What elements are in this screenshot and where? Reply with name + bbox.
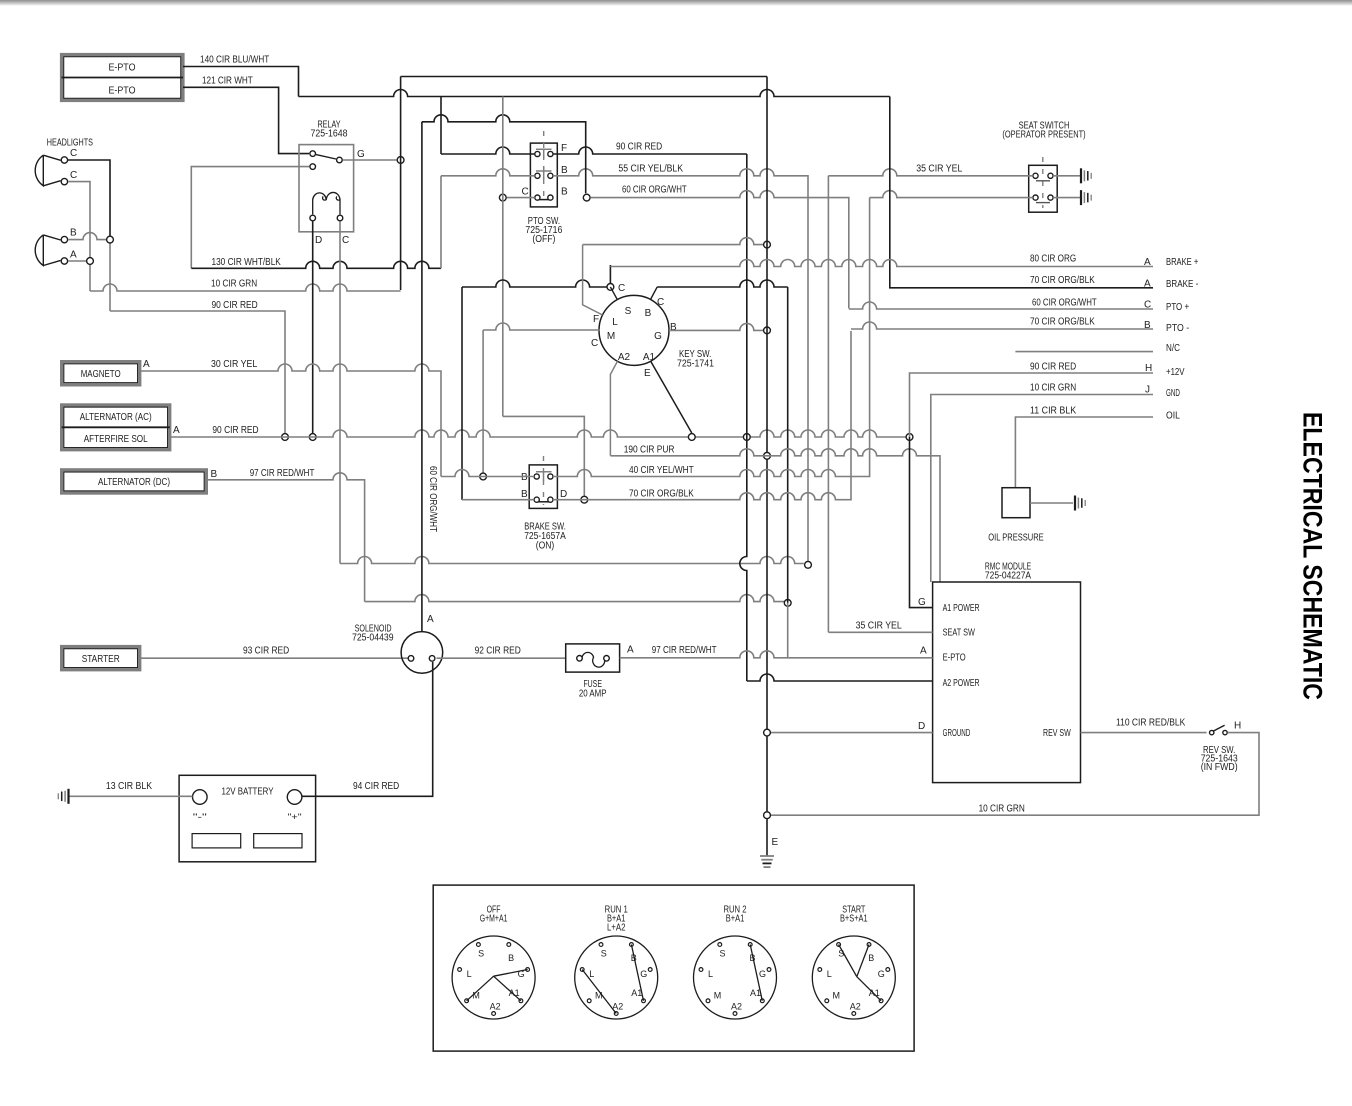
wire E-PTO entry from node xyxy=(788,603,933,658)
terminal C headlight upper-2 xyxy=(61,178,67,184)
wire headlight C2 to vertical xyxy=(68,182,90,291)
wire pto-C junction vertical xyxy=(502,97,504,417)
svg-text:D: D xyxy=(918,721,925,732)
svg-text:L: L xyxy=(612,317,618,328)
wire 90 RED row-F vertical xyxy=(740,154,747,681)
svg-text:BRAKE +: BRAKE + xyxy=(1166,257,1198,268)
brake contact B-right xyxy=(548,474,553,479)
wire SEAT SW entry xyxy=(828,631,932,633)
svg-text:A1: A1 xyxy=(643,352,656,363)
seat contact bar upper xyxy=(1036,180,1050,182)
svg-text:GND: GND xyxy=(1166,388,1180,399)
fuse F1 body xyxy=(566,644,620,672)
wire key C top-right stub xyxy=(651,287,658,300)
svg-text:10 CIR GRN: 10 CIR GRN xyxy=(979,804,1025,815)
wire 70 CIR ORG/BLK brake- row xyxy=(890,286,1153,289)
brake contact D-right xyxy=(548,497,553,502)
node main bus ground pin D xyxy=(764,729,771,736)
node RMC G vertical junction on 90 RED bus xyxy=(906,434,913,441)
PTO switch body xyxy=(530,143,557,207)
key position RUN 2 diagram xyxy=(694,905,777,1020)
svg-text:35 CIR YEL: 35 CIR YEL xyxy=(856,621,903,632)
wire relay G to node xyxy=(343,159,397,161)
ground seat switch upper xyxy=(1081,168,1091,183)
node junction B on C1 vertical xyxy=(107,236,114,243)
svg-text:20 AMP: 20 AMP xyxy=(579,689,607,700)
svg-text:70 CIR ORG/BLK: 70 CIR ORG/BLK xyxy=(1030,275,1095,286)
svg-text:97 CIR RED/WHT: 97 CIR RED/WHT xyxy=(652,645,717,656)
svg-text:A2: A2 xyxy=(618,352,631,363)
svg-text:35 CIR YEL: 35 CIR YEL xyxy=(916,164,963,175)
svg-text:10 CIR GRN: 10 CIR GRN xyxy=(1030,383,1076,394)
PTO contact bar B row xyxy=(536,166,552,180)
node key C top-left junction xyxy=(607,284,614,291)
svg-text:B: B xyxy=(508,953,514,963)
svg-text:ELECTRICAL SCHEMATIC: ELECTRICAL SCHEMATIC xyxy=(1298,412,1328,700)
wire A1 POWER entry xyxy=(910,437,933,608)
PTO contact bar F row xyxy=(536,149,552,158)
node key-M on 40 YEL/WHT row xyxy=(480,473,487,480)
wire 90 CIR RED main bus xyxy=(170,430,910,437)
seat contact upper-right xyxy=(1048,173,1053,178)
svg-text:(OFF): (OFF) xyxy=(532,234,555,245)
svg-text:C: C xyxy=(70,148,77,159)
svg-text:A: A xyxy=(920,646,927,657)
wire seat upper row 35 CIR YEL xyxy=(828,169,1033,176)
wire 130 CIR WHT/BLK row xyxy=(191,261,441,268)
battery positive post xyxy=(287,790,302,805)
svg-text:11 CIR BLK: 11 CIR BLK xyxy=(1030,406,1076,417)
wire key A2 stub diagonal xyxy=(610,361,617,456)
node key-F on main bus xyxy=(764,241,771,248)
wire 97 CIR RED/WHT fuse to E-PTO node xyxy=(620,651,788,658)
svg-text:L: L xyxy=(589,969,594,979)
relay K1 body xyxy=(299,145,354,232)
wire 190 CIR PUR row xyxy=(610,449,940,582)
svg-text:725-04227A: 725-04227A xyxy=(985,571,1031,582)
svg-text:A1: A1 xyxy=(509,988,520,998)
svg-text:B: B xyxy=(561,165,568,176)
wire 35 YEL vertical to RMC xyxy=(827,176,829,633)
svg-text:S: S xyxy=(601,949,607,959)
wire solenoid to fuse 92 CIR RED xyxy=(437,657,566,659)
wire key C-left row xyxy=(462,280,607,287)
svg-text:725-1741: 725-1741 xyxy=(677,359,714,370)
wire 10 CIR GRN gnd row xyxy=(931,395,1153,583)
svg-text:140 CIR BLU/WHT: 140 CIR BLU/WHT xyxy=(200,55,269,66)
terminal A headlight lower xyxy=(61,258,67,264)
wire main ground bus vertical xyxy=(766,77,768,857)
relay contact common xyxy=(310,151,316,157)
svg-text:S: S xyxy=(478,949,484,959)
svg-text:GROUND: GROUND xyxy=(943,728,971,739)
svg-text:97 CIR RED/WHT: 97 CIR RED/WHT xyxy=(250,468,315,479)
svg-text:D: D xyxy=(315,235,322,246)
svg-text:G: G xyxy=(759,969,766,979)
svg-text:HEADLIGHTS: HEADLIGHTS xyxy=(47,138,93,149)
svg-text:70 CIR ORG/BLK: 70 CIR ORG/BLK xyxy=(629,489,694,500)
relay contact NO G xyxy=(337,157,343,163)
battery cell rect right xyxy=(254,834,302,848)
headlight lamp lower xyxy=(35,235,60,266)
svg-text:90 CIR RED: 90 CIR RED xyxy=(212,425,258,436)
key position START diagram xyxy=(812,905,895,1020)
svg-text:60 CIR ORG/WHT: 60 CIR ORG/WHT xyxy=(1032,298,1097,309)
svg-text:N/C: N/C xyxy=(1166,343,1180,354)
wire key M row xyxy=(483,323,599,330)
node 70 ORG/BLK junction xyxy=(581,496,588,503)
solenoid body circle xyxy=(401,632,443,674)
node 55 YEL/BLK meets relay-C bus xyxy=(805,561,812,568)
wire row F left riser to top bus xyxy=(440,97,442,155)
svg-text:E-PTO: E-PTO xyxy=(109,63,136,74)
svg-text:ALTERNATOR (DC): ALTERNATOR (DC) xyxy=(98,477,170,488)
svg-text:MAGNETO: MAGNETO xyxy=(81,369,121,380)
svg-text:60 CIR ORG/WHT: 60 CIR ORG/WHT xyxy=(622,185,687,196)
RMC module U1 body xyxy=(933,582,1081,783)
wire headlight B to junction xyxy=(68,233,110,240)
node row-F vertical junction on 90 RED bus xyxy=(743,434,750,441)
svg-text:C: C xyxy=(618,283,625,294)
battery cell rect left xyxy=(192,834,241,848)
svg-text:A: A xyxy=(173,425,180,436)
svg-text:40 CIR YEL/WHT: 40 CIR YEL/WHT xyxy=(629,465,694,476)
svg-text:A2: A2 xyxy=(850,1002,861,1012)
connector STARTER box xyxy=(62,647,140,670)
svg-text:E-PTO: E-PTO xyxy=(943,653,966,664)
svg-text:G: G xyxy=(640,969,647,979)
battery body xyxy=(179,775,316,862)
wire 40 YEL/WHT left segment xyxy=(441,470,534,477)
svg-text:M: M xyxy=(714,991,722,1001)
wire relay-G vertical bus xyxy=(400,77,402,291)
wire C-right vertical to E-PTO node xyxy=(787,287,789,603)
svg-text:12V BATTERY: 12V BATTERY xyxy=(222,786,274,797)
svg-text:(IN FWD): (IN FWD) xyxy=(1201,762,1238,773)
svg-text:A: A xyxy=(627,645,634,656)
wire top interconnect relay-G bus xyxy=(401,76,767,78)
svg-text:F: F xyxy=(593,314,599,325)
svg-text:55 CIR YEL/BLK: 55 CIR YEL/BLK xyxy=(618,164,683,175)
svg-text:H: H xyxy=(1145,363,1152,374)
wire 70 ORG/BLK left segment xyxy=(462,499,534,501)
svg-text:PTO +: PTO + xyxy=(1166,302,1189,313)
wire 121 CIR WHT from E-PTO to relay contact xyxy=(183,87,309,153)
svg-text:B: B xyxy=(645,308,652,319)
svg-text:90 CIR RED: 90 CIR RED xyxy=(212,300,258,311)
solenoid terminal left xyxy=(408,656,414,662)
PTO contact F-left xyxy=(535,151,540,156)
svg-text:H: H xyxy=(1234,721,1241,732)
brake contact B-left xyxy=(534,474,539,479)
brake switch body xyxy=(529,465,557,509)
key switch KS1 body circle xyxy=(599,295,669,365)
ground oil pressure xyxy=(1075,496,1085,511)
svg-text:PTO -: PTO - xyxy=(1166,323,1189,334)
svg-text:130 CIR WHT/BLK: 130 CIR WHT/BLK xyxy=(212,257,282,268)
svg-text:L+A2: L+A2 xyxy=(607,923,626,934)
svg-text:80 CIR ORG: 80 CIR ORG xyxy=(1030,254,1076,265)
svg-text:S: S xyxy=(625,306,632,317)
key position OFF diagram xyxy=(452,905,535,1020)
wire key C-right row xyxy=(657,280,788,287)
svg-text:725-04439: 725-04439 xyxy=(352,633,394,644)
svg-text:M: M xyxy=(607,331,615,342)
ground battery negative xyxy=(58,789,68,804)
svg-text:L: L xyxy=(827,969,832,979)
relay armature xyxy=(316,155,336,159)
svg-text:"+": "+" xyxy=(288,812,302,822)
svg-text:70 CIR ORG/BLK: 70 CIR ORG/BLK xyxy=(1030,317,1095,328)
svg-text:M: M xyxy=(833,991,841,1001)
svg-text:93 CIR RED: 93 CIR RED xyxy=(243,646,289,657)
svg-text:B: B xyxy=(561,187,568,198)
relay coil terminal C xyxy=(337,215,343,221)
seat switch dashed actuator xyxy=(1042,157,1044,208)
wire headlight C1 to vertical xyxy=(68,160,110,240)
wire headlight A to junction xyxy=(68,260,90,262)
relay coil xyxy=(313,192,340,214)
wire 140 CIR BLU/WHT from E-PTO to top bus xyxy=(183,67,299,97)
wire key G row xyxy=(669,323,763,330)
svg-text:G: G xyxy=(918,597,926,608)
wire row bottom right segment 60 CIR ORG/WHT xyxy=(591,191,849,309)
svg-text:(ON): (ON) xyxy=(536,541,555,552)
svg-text:G: G xyxy=(878,969,885,979)
svg-text:F: F xyxy=(561,143,567,154)
svg-text:B: B xyxy=(521,489,528,500)
svg-text:STARTER: STARTER xyxy=(82,654,120,665)
svg-text:13 CIR BLK: 13 CIR BLK xyxy=(106,781,152,792)
fuse terminal right xyxy=(604,656,610,662)
wire seat lower ground lead xyxy=(1053,197,1080,199)
svg-text:OIL: OIL xyxy=(1166,411,1180,422)
node E-PTO vertical junction xyxy=(784,600,791,607)
svg-text:C: C xyxy=(591,338,598,349)
node main bus 190 PUR xyxy=(764,452,771,459)
seat switch body xyxy=(1029,165,1058,212)
svg-text:+12V: +12V xyxy=(1166,367,1185,378)
oil pressure switch body xyxy=(1002,488,1030,518)
svg-text:E-PTO: E-PTO xyxy=(109,86,136,97)
PTO contact B2-right xyxy=(548,195,553,200)
wire row C-B bottom left segment xyxy=(507,197,535,199)
key position panel box xyxy=(433,885,914,1051)
wire 60 CIR ORG/WHT pto+ row xyxy=(849,302,1153,309)
svg-text:G+M+A1: G+M+A1 xyxy=(480,914,508,925)
node key-G on main bus xyxy=(764,327,771,334)
ground seat switch lower xyxy=(1081,190,1091,205)
wire 140 net vertical right xyxy=(889,97,891,288)
node relay G junction xyxy=(397,157,404,164)
svg-text:90 CIR RED: 90 CIR RED xyxy=(616,142,662,153)
wire relay-C bus across to 55 YEL/BLK node xyxy=(340,557,804,564)
svg-text:A1 POWER: A1 POWER xyxy=(943,603,980,614)
connector ALTERNATOR DC box xyxy=(62,470,207,493)
terminal C headlight upper-1 xyxy=(61,157,67,163)
PTO switch dashed actuator xyxy=(543,131,545,203)
node relay-D junction on 90 RED bus xyxy=(309,434,316,441)
seat contact upper-left xyxy=(1033,173,1038,178)
rev switch contact left xyxy=(1210,730,1214,734)
wire 90 CIR RED +12V row xyxy=(910,373,1154,437)
connector ALTERNATOR AC / AFTERFIRE SOL box xyxy=(62,405,170,450)
wire key F stub xyxy=(583,245,603,315)
svg-text:REV SW: REV SW xyxy=(1043,728,1071,739)
svg-text:90 CIR RED: 90 CIR RED xyxy=(1030,362,1076,373)
svg-text:BRAKE -: BRAKE - xyxy=(1166,279,1198,290)
wire relay D leg down xyxy=(312,222,314,438)
wire key F row to main bus xyxy=(583,238,763,245)
wire 60 ORG/WHT loop over pto xyxy=(422,115,586,193)
rev switch blade xyxy=(1214,725,1225,731)
wire 30 CIR YEL magneto xyxy=(140,364,441,477)
brake closed contact bottom xyxy=(537,501,551,503)
svg-text:725-1648: 725-1648 xyxy=(311,129,348,140)
PTO contact F-right xyxy=(548,151,553,156)
svg-text:A: A xyxy=(1144,257,1151,268)
svg-text:C: C xyxy=(1144,300,1151,311)
wire key M riser down xyxy=(482,330,484,477)
svg-text:G: G xyxy=(654,331,662,342)
svg-text:110 CIR RED/BLK: 110 CIR RED/BLK xyxy=(1116,718,1186,729)
wire 70 ORG/BLK right segment xyxy=(553,331,851,500)
wire 13 CIR BLK battery negative xyxy=(70,795,193,797)
svg-text:190 CIR PUR: 190 CIR PUR xyxy=(624,445,675,456)
seat contact bar lower xyxy=(1036,202,1050,204)
wire 97 net lower bus to RMC E-PTO node xyxy=(365,595,788,602)
svg-text:"-": "-" xyxy=(193,812,207,822)
wire 97 CIR RED/WHT from alternator DC xyxy=(206,473,364,602)
wire key C top-left stub xyxy=(610,287,617,300)
wire row F right segment 90 CIR RED xyxy=(553,147,747,154)
headlight lamp upper xyxy=(35,155,60,186)
svg-text:A: A xyxy=(427,614,434,625)
seat contact lower-left xyxy=(1033,195,1038,200)
PTO contact B-right xyxy=(548,173,553,178)
svg-text:A2: A2 xyxy=(490,1002,501,1012)
brake contact B2-left xyxy=(534,497,539,502)
rev switch contact right xyxy=(1223,730,1227,734)
node main bus 10 GRN return xyxy=(764,812,771,819)
wire 80 CIR ORG row xyxy=(610,260,1153,267)
brake switch dashed actuator xyxy=(543,456,545,505)
svg-text:121 CIR WHT: 121 CIR WHT xyxy=(202,76,253,87)
svg-text:A: A xyxy=(70,250,77,261)
wire N/C row xyxy=(1015,351,1153,353)
node key E junction on 90 RED bus xyxy=(688,434,695,441)
wire rev sw return loop xyxy=(771,733,1259,816)
PTO contact C-left xyxy=(535,195,540,200)
solenoid terminal right xyxy=(429,656,435,662)
svg-text:AFTERFIRE SOL: AFTERFIRE SOL xyxy=(84,434,148,445)
wire 93 CIR RED starter to solenoid xyxy=(140,657,409,659)
svg-text:30 CIR YEL: 30 CIR YEL xyxy=(211,359,258,370)
svg-text:60 CIR ORG/WHT: 60 CIR ORG/WHT xyxy=(427,466,438,532)
wire key-C riser to 80 ORG row xyxy=(609,265,611,284)
wire 94 CIR RED solenoid to battery xyxy=(302,662,433,796)
svg-text:A: A xyxy=(143,359,150,370)
wire relay lower contact to 130 row xyxy=(191,167,309,269)
node junction A on C2 vertical xyxy=(87,258,94,265)
svg-text:C: C xyxy=(70,170,77,181)
wire pto-C net jog to 70 row xyxy=(503,416,585,499)
svg-text:10 CIR GRN: 10 CIR GRN xyxy=(211,279,257,290)
PTO closed contact bottom row xyxy=(537,199,550,201)
wire 40 YEL/WHT right segment xyxy=(553,198,870,477)
ground earth main xyxy=(760,856,774,867)
svg-text:OIL PRESSURE: OIL PRESSURE xyxy=(988,533,1044,544)
connector J-EPTO (E-PTO dual connector box) xyxy=(62,55,184,101)
connector MAGNETO box xyxy=(62,362,140,385)
svg-text:C: C xyxy=(522,187,529,198)
wire 70 CIR ORG/BLK pto- row xyxy=(851,322,1153,329)
brake contact bar top xyxy=(536,472,552,481)
svg-text:D: D xyxy=(560,489,567,500)
svg-text:SEAT SW: SEAT SW xyxy=(943,628,976,639)
svg-text:B: B xyxy=(521,472,528,483)
svg-text:C: C xyxy=(342,235,349,246)
wire 11 CIR BLK oil row xyxy=(1015,417,1153,488)
wire row F left segment xyxy=(441,147,535,154)
svg-text:L: L xyxy=(708,969,713,979)
svg-text:ALTERNATOR (AC): ALTERNATOR (AC) xyxy=(80,412,152,423)
wire relay C leg down xyxy=(339,222,341,564)
svg-text:B+A1: B+A1 xyxy=(726,914,745,925)
svg-text:B+S+A1: B+S+A1 xyxy=(840,914,868,925)
battery negative post xyxy=(193,790,208,805)
node 60 ORG/WHT junction left xyxy=(499,194,506,201)
svg-text:L: L xyxy=(467,969,472,979)
svg-text:B: B xyxy=(211,469,218,480)
wire A2 POWER entry xyxy=(747,674,933,681)
wire row B riser to 130 row xyxy=(440,176,442,268)
svg-text:B: B xyxy=(670,322,677,333)
terminal B headlight lower xyxy=(61,236,67,242)
svg-text:S: S xyxy=(719,949,725,959)
fuse terminal left xyxy=(577,656,583,662)
relay coil terminal D xyxy=(310,215,316,221)
node 90 RED bus left junction xyxy=(282,434,289,441)
wire 10 CIR GRN to relay-G vertical xyxy=(90,284,401,291)
svg-text:92 CIR RED: 92 CIR RED xyxy=(475,646,521,657)
wire brake-B riser xyxy=(461,287,463,500)
wire row B right segment 55 CIR YEL/BLK xyxy=(553,169,808,565)
svg-text:A: A xyxy=(1144,279,1151,290)
wire key E diagonal xyxy=(651,361,692,433)
node 60 ORG/WHT junction right xyxy=(583,194,590,201)
wire headlight C1 vertical lower xyxy=(109,243,111,311)
key position RUN 1 diagram xyxy=(575,905,658,1020)
svg-text:B: B xyxy=(70,228,77,239)
svg-text:E: E xyxy=(772,837,779,848)
svg-text:A2: A2 xyxy=(731,1002,742,1012)
seat contact lower-right xyxy=(1048,195,1053,200)
wire oil pressure ground lead xyxy=(1030,502,1073,504)
relay contact lower xyxy=(310,164,316,170)
PTO contact B-left xyxy=(535,173,540,178)
svg-text:94 CIR RED: 94 CIR RED xyxy=(353,781,399,792)
wire 60 CIR ORG/WHT long vertical to solenoid xyxy=(421,122,423,632)
svg-text:E: E xyxy=(644,368,651,379)
svg-text:B: B xyxy=(868,953,874,963)
wire row B left segment xyxy=(441,169,535,176)
wire REV SW lead xyxy=(1081,732,1207,734)
svg-text:G: G xyxy=(357,149,365,160)
wire 90 CIR RED headlight feed xyxy=(110,311,285,437)
wire GROUND entry xyxy=(771,732,933,734)
svg-text:M: M xyxy=(595,991,603,1001)
